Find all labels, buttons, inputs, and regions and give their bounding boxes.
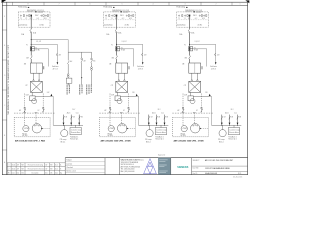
page background (0, 0, 252, 178)
svg-text:7: 7 (59, 4, 60, 6)
svg-text:B: B (60, 169, 61, 171)
option cluster wiring (column 1 only) (31, 39, 96, 95)
svg-text:8: 8 (28, 4, 29, 6)
svg-text:SIEMENS: SIEMENS (177, 166, 188, 169)
circuit group 1 : air cooled 1500 CFM 1 fan (14, 6, 83, 144)
option wire A (67, 52, 69, 60)
siemens teal info box (158, 158, 171, 175)
left zone ticks (2, 30, 7, 150)
option wire B (81, 52, 83, 58)
svg-text:Revision full cfm reference: Revision full cfm reference (28, 169, 45, 171)
outer border (2, 2, 247, 175)
siemens logo box (170, 158, 172, 175)
svg-text:Drw: Drw (17, 172, 19, 174)
svg-text:AIR COOLED 1500 CFM - 3 FAN: AIR COOLED 1500 CFM - 3 FAN (174, 140, 204, 143)
branch to option cluster (31, 39, 68, 41)
revision row 1 (9, 163, 62, 166)
option bus (68, 51, 91, 53)
contact C (91, 60, 93, 63)
svg-text:Drw: Drw (45, 172, 47, 174)
revision header row (8, 171, 62, 174)
svg-text:4: 4 (153, 4, 154, 6)
corner mark top-left (2, 0, 7, 3)
svg-text:WALKER ASSOCIATES LLC: WALKER ASSOCIATES LLC (121, 158, 145, 161)
title block divider 1 (64, 158, 66, 175)
svg-text:TEL: (305) 000-0000: TEL: (305) 000-0000 (121, 169, 135, 171)
svg-text:06.02: 06.02 (12, 169, 16, 171)
svg-text:6: 6 (90, 4, 91, 6)
svg-text:Chk: Chk (50, 172, 53, 174)
svg-text:Chk: Chk (21, 172, 24, 174)
junction node (31, 39, 32, 40)
title fields rows (192, 165, 248, 167)
circuit group 2 : air cooled 1500 CFM 2 fan (99, 6, 168, 144)
top zone ticks (13, 2, 233, 5)
svg-text:CIRCUIT DIAGRAM AND PANEL: CIRCUIT DIAGRAM AND PANEL (205, 167, 230, 170)
circuit group 3 : air cooled 1500 CFM 3 fan (172, 6, 241, 144)
svg-text:1: 1 (240, 4, 241, 6)
contact B (81, 60, 83, 63)
inner border left (6, 2, 8, 175)
svg-text:05.1: 05.1 (55, 164, 58, 166)
company address lines (121, 161, 141, 173)
svg-text:1 / 1: 1 / 1 (238, 173, 241, 175)
svg-text:THIS DRAWING IS THE PROPERTY O: THIS DRAWING IS THE PROPERTY OF WALKER A… (7, 44, 10, 115)
svg-text:06.2: 06.2 (55, 169, 58, 171)
title block top border (65, 157, 247, 159)
svg-text:SUITE 200 BLDG 4: SUITE 200 BLDG 4 (121, 164, 134, 166)
svg-text:AIR COOLED 1500 CFM - 2 FAN: AIR COOLED 1500 CFM - 2 FAN (101, 140, 131, 143)
svg-text:AIR COOLED 1500 CFM - 1 FAN: AIR COOLED 1500 CFM - 1 FAN (15, 140, 45, 143)
company logo triangle (144, 159, 157, 174)
label: option A (rotated) (66, 85, 68, 96)
corner mark top-right (245, 0, 249, 3)
svg-text:2: 2 (216, 4, 217, 6)
svg-text:Checked: Checked (66, 167, 72, 169)
svg-text:SUBJECT: SUBJECT (193, 160, 200, 162)
label: option B (rotated) (79, 85, 81, 96)
approval rows (65, 162, 105, 173)
top zone numbers (28, 4, 241, 6)
inner border top (2, 5, 247, 7)
option device box A (67, 76, 69, 79)
coil circles C (91, 67, 93, 69)
contact A (67, 61, 69, 64)
title block divider 2 (104, 158, 106, 175)
svg-text:05-30-2024: 05-30-2024 (233, 177, 242, 178)
revision table (7, 163, 65, 175)
svg-text:00-A0-5000-001: 00-A0-5000-001 (205, 172, 217, 175)
svg-text:5: 5 (122, 4, 123, 6)
svg-text:AIR COOLED 1500 CFM 3 FAN UNIT: AIR COOLED 1500 CFM 3 FAN UNIT (205, 159, 233, 162)
left zone letters (4, 16, 6, 164)
revision row 2 (9, 169, 62, 171)
label: option C (rotated) (86, 85, 88, 96)
coil circles A (67, 74, 69, 76)
title block divider 3 (119, 158, 121, 175)
svg-text:3: 3 (185, 4, 186, 6)
option wire C (91, 52, 93, 58)
option feeder drop (67, 40, 69, 53)
teal box text lines (159, 159, 168, 173)
junction B (81, 77, 82, 78)
svg-text:05.01: 05.01 (12, 164, 16, 166)
